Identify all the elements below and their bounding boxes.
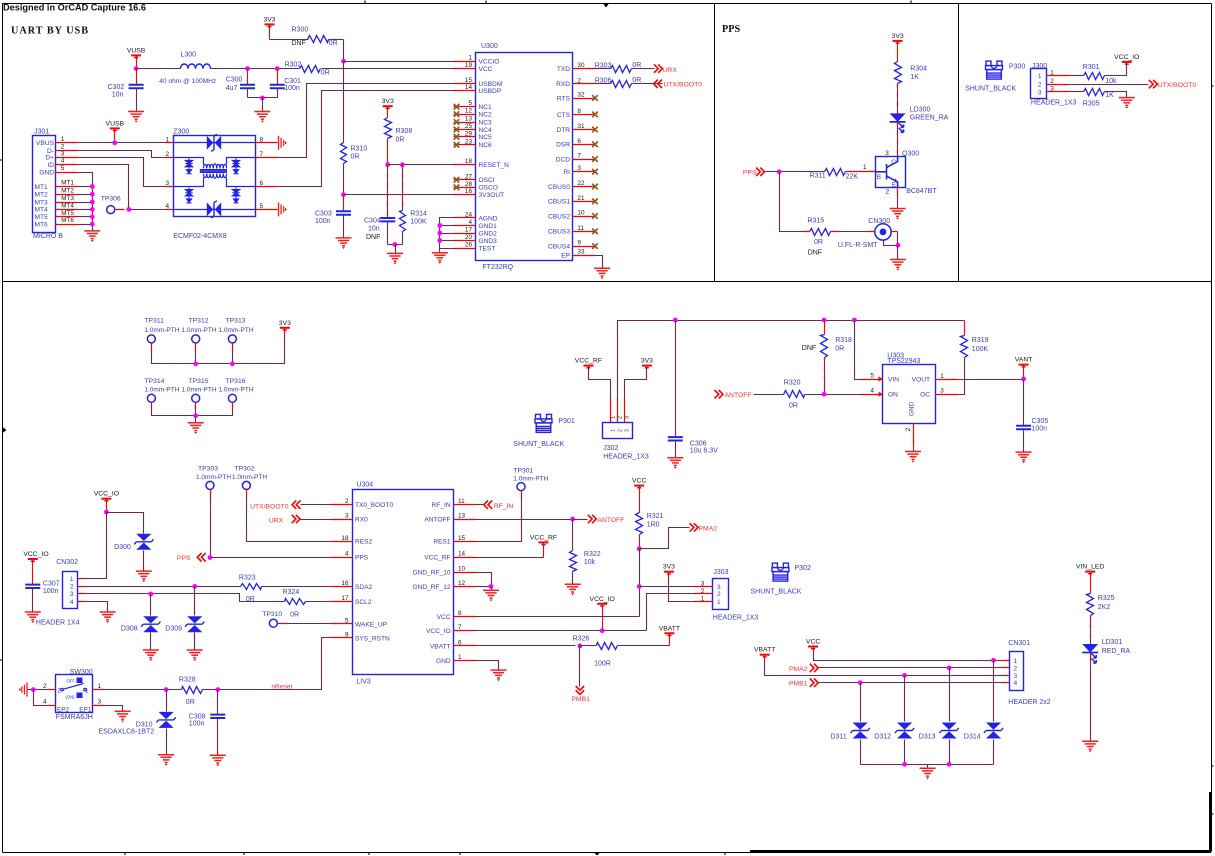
svg-text:2: 2 [345, 498, 349, 505]
svg-text:R314: R314 [410, 211, 427, 218]
resistor R306 0R (RXD) [595, 83, 611, 85]
svg-text:TP313: TP313 [226, 318, 246, 325]
capacitor C301 100n [277, 69, 279, 85]
node D308 junction [148, 592, 153, 597]
resistor R311 22K [825, 169, 846, 176]
svg-text:R326: R326 [573, 635, 590, 642]
svg-text:VUSB: VUSB [106, 120, 125, 127]
node ground junction [260, 96, 265, 101]
svg-text:HEADER_1X3: HEADER_1X3 [603, 453, 649, 460]
SW300 pin stubs [48, 689, 56, 691]
svg-text:24: 24 [465, 211, 473, 218]
wire SW300 pin4 loop [34, 690, 48, 706]
svg-text:7: 7 [577, 153, 581, 160]
wire PPS to U304 [211, 557, 331, 559]
power 3V3 (J303) [664, 571, 674, 573]
wire R321 to VCC node [639, 535, 641, 549]
wire GND_RF pins [476, 573, 492, 587]
resistor R300 0R DNF [308, 36, 329, 43]
svg-text:1.0mm-PTH: 1.0mm-PTH [219, 327, 254, 334]
wire D300 to ground [143, 551, 145, 572]
svg-text:3V3: 3V3 [279, 320, 291, 327]
svg-text:GREEN_RA: GREEN_RA [910, 114, 949, 121]
svg-text:1: 1 [1050, 70, 1054, 77]
node C300 top [245, 66, 250, 71]
wire GND pin to MT bus [78, 173, 93, 231]
svg-text:10k: 10k [584, 559, 596, 566]
wire R326 to VBATT [618, 645, 670, 647]
connector J303 HEADER_1X3 [713, 579, 729, 610]
ground under C304/R314 [395, 245, 397, 254]
tvs diode D309 [194, 587, 196, 616]
switch SW300 FSMRA6JH [56, 675, 93, 713]
wire VBUS to Z300 pin1 [78, 142, 174, 144]
svg-text:VCC: VCC [437, 614, 451, 621]
ground under EP [594, 268, 610, 276]
testpoint TP314 [147, 394, 155, 402]
svg-text:11: 11 [577, 225, 584, 232]
wire R310 to C303 junction [343, 164, 345, 195]
svg-text:4: 4 [43, 699, 47, 706]
no-connect X marks OSCI OSCO [454, 177, 460, 183]
svg-text:1.0mm-PTH: 1.0mm-PTH [219, 387, 254, 394]
ground under C307 [25, 612, 41, 620]
wire U304 GND to ground [476, 661, 499, 671]
capacitor C306 10u 6.3V [675, 321, 677, 437]
svg-text:R318: R318 [835, 337, 852, 344]
svg-text:RED_RA: RED_RA [1102, 648, 1131, 655]
wire 3V3 to R300 [270, 39, 309, 41]
power VCC_IO (U304 pin7) [597, 603, 607, 605]
capacitor C308 100n [217, 690, 219, 715]
svg-text:0R: 0R [329, 40, 338, 47]
svg-text:LD301: LD301 [1102, 639, 1123, 646]
node PPS-TP303 junction [208, 555, 213, 560]
svg-text:EP: EP [561, 252, 570, 259]
svg-text:30: 30 [577, 62, 585, 69]
chassis ground Z300 pin5 [279, 202, 284, 216]
svg-text:OC: OC [920, 392, 930, 399]
capacitor C302 10n [136, 69, 138, 85]
svg-text:VCC_IO: VCC_IO [23, 551, 48, 558]
svg-text:R302: R302 [285, 62, 302, 69]
svg-text:6: 6 [577, 138, 581, 145]
svg-text:MT5: MT5 [35, 214, 49, 221]
svg-text:5: 5 [345, 617, 349, 624]
testpoint TP302 [242, 481, 250, 489]
svg-text:RES2: RES2 [355, 539, 373, 546]
svg-text:CN302: CN302 [56, 559, 78, 566]
svg-text:SDA2: SDA2 [355, 584, 373, 591]
svg-text:LIV3: LIV3 [356, 679, 371, 686]
svg-text:10u 6.3V: 10u 6.3V [690, 448, 718, 455]
svg-text:CBUS2: CBUS2 [548, 213, 570, 220]
svg-text:16: 16 [465, 188, 473, 195]
net ANTOFF (U304) [476, 519, 573, 521]
svg-text:RX0: RX0 [355, 516, 368, 523]
svg-text:3: 3 [701, 581, 705, 588]
svg-text:J303: J303 [713, 569, 728, 576]
svg-text:SHUNT_BLACK: SHUNT_BLACK [751, 588, 802, 595]
wire C300/C301 bottoms [248, 97, 278, 99]
svg-text:GND3: GND3 [479, 238, 498, 245]
svg-text:Z300: Z300 [173, 129, 189, 136]
svg-text:MT2: MT2 [35, 192, 49, 199]
wire ID to TP306 junction to Z300 pin4 [78, 165, 174, 210]
wire R320 to ON [805, 394, 861, 396]
wire VCC_RF to J302 pin1 [589, 366, 611, 399]
svg-text:TX0_BOOT0: TX0_BOOT0 [355, 502, 393, 509]
svg-text:4: 4 [468, 219, 472, 226]
svg-text:C308: C308 [189, 713, 206, 720]
wires testpoint 3V3 bus [151, 343, 153, 351]
resistor R310 0R [341, 143, 347, 164]
svg-text:HEADER_1X3: HEADER_1X3 [1031, 100, 1077, 107]
svg-text:18: 18 [341, 535, 349, 542]
svg-text:18: 18 [465, 158, 473, 165]
svg-text:7: 7 [260, 151, 264, 158]
power VIN_LED [1085, 571, 1095, 573]
svg-text:OFF: OFF [67, 678, 76, 683]
ground under R305 [1119, 98, 1135, 106]
wire R319 to OC [958, 358, 965, 395]
svg-text:TP302: TP302 [235, 466, 255, 473]
svg-text:2: 2 [886, 189, 890, 196]
wire Z300 pin6 to U300 USBDP [278, 91, 454, 187]
svg-text:Q300: Q300 [902, 151, 919, 158]
svg-text:PPS: PPS [743, 169, 757, 176]
wire CN300 to ground [892, 231, 898, 233]
wire LD300 to Q300 collector [897, 122, 899, 157]
svg-text:PMB1: PMB1 [789, 681, 808, 688]
svg-text:1: 1 [1014, 658, 1018, 665]
resistor R328 0R [182, 687, 203, 694]
svg-text:100K: 100K [410, 218, 427, 225]
node C308 junction [215, 687, 220, 692]
svg-text:D313: D313 [919, 734, 936, 741]
wire SW300 pin3 to ground [104, 706, 123, 712]
ground under C302 [128, 112, 144, 120]
ground under CN302 pin4 [100, 612, 116, 620]
node R318-ANTOFF junction [822, 392, 827, 397]
svg-text:1.0mm-PTH: 1.0mm-PTH [144, 387, 179, 394]
jumper P300 SHUNT_BLACK [986, 61, 1003, 79]
svg-text:14: 14 [465, 84, 473, 91]
node VCC_IO junction [104, 510, 109, 515]
wire VBATT row R326 [476, 645, 576, 647]
wire J303 pin2 drop [647, 594, 695, 631]
svg-text:R321: R321 [647, 513, 664, 520]
svg-text:3: 3 [98, 699, 102, 706]
svg-text:D310: D310 [136, 721, 153, 728]
svg-text:DSR: DSR [556, 142, 570, 149]
svg-text:VOUT: VOUT [912, 376, 930, 383]
svg-text:OSCO: OSCO [479, 185, 498, 192]
svg-text:0R: 0R [396, 137, 405, 144]
svg-text:C307: C307 [43, 581, 60, 588]
svg-text:DNF: DNF [366, 234, 380, 241]
wire VANT input bus [618, 321, 965, 399]
power VBATT (R326) [664, 632, 674, 634]
svg-text:13: 13 [465, 116, 473, 123]
svg-text:LD300: LD300 [910, 107, 931, 114]
wire PMB1 to CN301 pin4 [819, 682, 1002, 684]
node R322 junction [570, 517, 575, 522]
no-connect X marks right side [592, 95, 598, 101]
svg-text:2: 2 [701, 588, 705, 595]
svg-text:VIN_LED: VIN_LED [1076, 564, 1104, 571]
svg-text:1.0mm-PTH: 1.0mm-PTH [513, 476, 548, 483]
svg-text:MT2: MT2 [61, 188, 74, 195]
wire diode ground bus [861, 764, 994, 766]
connector CN301 HEADER 2x2 [1010, 652, 1024, 691]
svg-text:C304: C304 [364, 218, 381, 225]
ic U300 FT232RQ [476, 53, 573, 261]
section divider lines [3, 4, 1212, 282]
Z300 bottom TVS [174, 209, 256, 211]
svg-text:2: 2 [1038, 82, 1042, 89]
svg-text:0R: 0R [835, 346, 844, 353]
Z300 common-mode choke [200, 164, 227, 179]
net PMB1 (U304) [579, 646, 581, 687]
U303 pin OC [936, 394, 958, 396]
svg-text:4: 4 [165, 203, 169, 210]
node R318 junction [822, 318, 827, 323]
svg-text:CTS: CTS [557, 112, 571, 119]
connector J302 HEADER_1X3 [610, 399, 612, 423]
svg-text:MT4: MT4 [61, 203, 74, 210]
svg-text:D308: D308 [121, 625, 138, 632]
svg-text:R305: R305 [1083, 101, 1100, 108]
svg-text:D300: D300 [114, 544, 131, 551]
svg-text:3: 3 [345, 513, 349, 520]
resistor R323 0R (SDA2) [215, 586, 241, 588]
svg-text:DNF: DNF [802, 345, 816, 352]
svg-text:J301: J301 [34, 129, 49, 136]
node R308 junction [385, 162, 390, 167]
svg-text:1: 1 [468, 55, 472, 62]
wire 3V3OUT to U300 pin16 [344, 194, 454, 196]
wire J303 pin3 VCC [640, 586, 695, 588]
svg-text:0R: 0R [186, 699, 195, 706]
svg-text:2: 2 [165, 151, 169, 158]
svg-text:17: 17 [465, 227, 473, 234]
node R314 junction [400, 162, 405, 167]
svg-text:40 ohm @ 100MHz: 40 ohm @ 100MHz [159, 78, 216, 85]
resistor R315 0R DNF [810, 229, 831, 236]
svg-text:100n: 100n [284, 85, 300, 92]
wire SCL2 jog [215, 594, 285, 602]
svg-text:C303: C303 [315, 211, 332, 218]
svg-text:100R: 100R [594, 660, 611, 667]
svg-text:28: 28 [465, 181, 473, 188]
connector J301 MICRO B [33, 136, 56, 233]
svg-text:1.0mm-PTH: 1.0mm-PTH [182, 327, 217, 334]
wire R304 to LD300 [897, 84, 899, 114]
svg-text:U300: U300 [481, 43, 498, 50]
tvs diode D300 [136, 534, 151, 541]
node C304-R314 junction [393, 242, 398, 247]
resistor R324 0R (SCL2) [285, 599, 306, 605]
svg-text:VCC_IO: VCC_IO [426, 628, 451, 635]
svg-text:R320: R320 [784, 380, 801, 387]
node TP315 junction [193, 413, 198, 418]
svg-text:ANTOFF: ANTOFF [597, 517, 624, 524]
power VCC_IO (J300) [1122, 61, 1132, 63]
svg-text:31: 31 [577, 123, 585, 130]
svg-text:VCC_RF: VCC_RF [575, 358, 602, 365]
svg-text:3V3OUT: 3V3OUT [479, 192, 505, 199]
svg-text:1: 1 [70, 576, 74, 583]
svg-text:BC847BT: BC847BT [906, 188, 937, 195]
node D314 junction [991, 658, 996, 663]
wire PMA2 to CN301 pin2 [819, 667, 1002, 669]
svg-text:R319: R319 [972, 337, 989, 344]
svg-text:1: 1 [701, 596, 705, 603]
ground under SW300 pin3 [115, 711, 131, 719]
testpoint TP315 [192, 394, 200, 402]
svg-text:R310: R310 [351, 146, 368, 153]
node CN300 gnd junction [896, 243, 901, 248]
wire TP302 to RES2 [246, 490, 248, 498]
svg-text:P300: P300 [1009, 63, 1025, 70]
svg-text:3V3: 3V3 [263, 16, 275, 23]
capacitor C304 10n DNF [387, 165, 389, 218]
svg-text:VBATT: VBATT [430, 643, 451, 650]
testpoint TP301 [517, 483, 525, 491]
tvs diode D314 [993, 661, 995, 722]
svg-text:32: 32 [577, 92, 585, 99]
power 3V3 (R308) [383, 105, 393, 107]
svg-text:NC5: NC5 [479, 134, 493, 141]
svg-text:CBUS3: CBUS3 [548, 229, 570, 236]
node D310 junction [164, 687, 169, 692]
svg-text:12: 12 [465, 108, 473, 115]
wire VUSB rail to L300 [137, 68, 181, 70]
svg-text:3: 3 [1038, 89, 1042, 96]
svg-text:D311: D311 [831, 734, 847, 741]
svg-text:ON: ON [888, 392, 898, 399]
svg-text:C300: C300 [226, 77, 243, 84]
svg-text:VCC: VCC [632, 478, 646, 485]
U303 pin ON [861, 394, 883, 396]
net ANTOFF entry [715, 390, 723, 398]
ground under C305 [1016, 452, 1032, 460]
svg-text:VCC_IO: VCC_IO [1114, 54, 1139, 61]
U300 GND pins bus [440, 218, 454, 249]
svg-text:UTX/BOOT0: UTX/BOOT0 [1158, 82, 1197, 89]
svg-text:1.0mm-PTH: 1.0mm-PTH [196, 474, 231, 481]
wire R302 to U300 pin19 [322, 68, 454, 70]
tvs diode D313 [949, 668, 951, 722]
wire D+ to Z300 pin3 [78, 158, 174, 187]
wire TP303 down to PPS row [210, 490, 212, 498]
svg-text:0R: 0R [632, 62, 641, 69]
svg-text:3: 3 [1014, 673, 1018, 680]
svg-text:2K2: 2K2 [1098, 604, 1111, 611]
tvs diode D308 [150, 595, 152, 616]
svg-text:5: 5 [468, 100, 472, 107]
svg-text:GND: GND [39, 169, 54, 176]
svg-text:11: 11 [458, 498, 465, 505]
svg-text:0R: 0R [290, 612, 299, 619]
ground under C300/C301 [262, 98, 264, 112]
svg-text:NC3: NC3 [479, 119, 493, 126]
node 3V3OUT junction [341, 192, 346, 197]
node TP312 junction [193, 361, 198, 366]
svg-text:3V3: 3V3 [663, 564, 675, 571]
svg-text:3: 3 [940, 388, 944, 395]
chassis ground Z300 pin8 [279, 136, 284, 150]
capacitor C305 100n [1023, 380, 1025, 426]
svg-text:TP316: TP316 [226, 378, 246, 385]
svg-text:D314: D314 [964, 734, 981, 741]
svg-text:HEADER_1X3: HEADER_1X3 [713, 615, 759, 622]
node C301 top [275, 66, 280, 71]
svg-text:D309: D309 [165, 625, 182, 632]
svg-text:TP303: TP303 [198, 466, 218, 473]
svg-text:CN300: CN300 [868, 218, 890, 225]
led LD301 RED_RA [1082, 644, 1098, 653]
wire VOUT to VANT [958, 379, 1024, 381]
wire TP310 to WAKE_UP [278, 623, 287, 625]
svg-text:MT5: MT5 [61, 210, 74, 217]
svg-text:4: 4 [1014, 680, 1018, 687]
wire VCC to CN301 pin1 [813, 647, 815, 654]
svg-text:2: 2 [577, 77, 581, 84]
svg-text:NC2: NC2 [479, 112, 493, 119]
svg-text:RES1: RES1 [433, 539, 451, 546]
node SW300 gnd junction [31, 687, 36, 692]
svg-text:ID: ID [47, 162, 54, 169]
svg-text:TP301: TP301 [513, 467, 533, 474]
svg-text:GND_RF_12: GND_RF_12 [412, 584, 450, 591]
svg-text:MT1: MT1 [61, 180, 74, 187]
svg-text:ANTOFF: ANTOFF [424, 516, 450, 523]
svg-text:EP2: EP2 [57, 706, 70, 713]
svg-text:VBUS: VBUS [36, 140, 55, 147]
svg-text:FSMRA6JH: FSMRA6JH [56, 714, 93, 721]
wire R308 to RESET_N [387, 139, 389, 165]
svg-text:URX: URX [269, 517, 284, 524]
svg-text:8: 8 [577, 108, 581, 115]
svg-text:20: 20 [465, 234, 473, 241]
svg-text:RXD: RXD [556, 81, 570, 88]
node J303 pin3 junction [637, 584, 642, 589]
svg-text:2: 2 [70, 584, 74, 591]
svg-text:1: 1 [1038, 73, 1042, 80]
svg-text:UTX/BOOT0: UTX/BOOT0 [250, 503, 289, 510]
power VANT [1019, 364, 1029, 366]
svg-text:R323: R323 [239, 574, 256, 581]
svg-text:PPS: PPS [177, 555, 191, 562]
svg-text:VIN: VIN [888, 376, 899, 383]
node VUSB junction [134, 66, 139, 71]
svg-text:U.FL-R-SMT: U.FL-R-SMT [838, 242, 878, 249]
wires MT1-MT6 to bus [78, 186, 93, 188]
wire VCCIO to U300 pin1 [344, 61, 454, 63]
Z300 inner path USBDM [174, 158, 204, 165]
svg-text:CBUS1: CBUS1 [548, 199, 570, 206]
wire R315 to CN300 [831, 231, 839, 233]
svg-text:10n: 10n [368, 226, 380, 233]
power VCC (CN301) [808, 646, 818, 648]
svg-text:NC1: NC1 [479, 104, 493, 111]
svg-text:0R: 0R [814, 239, 823, 246]
svg-text:PMA2: PMA2 [699, 525, 718, 532]
wire 3V3 to J303 pin1 [668, 572, 670, 580]
node TP306 junction [126, 207, 131, 212]
